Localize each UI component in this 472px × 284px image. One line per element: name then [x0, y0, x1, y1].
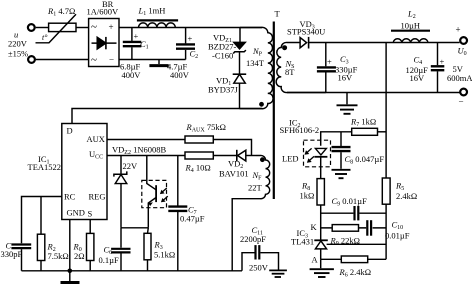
- wire: anode / R6 line: [321, 258, 386, 260]
- svg-text:+: +: [327, 57, 332, 67]
- svg-text:R4 10Ω: R4 10Ω: [185, 163, 211, 175]
- svg-text:2Ω: 2Ω: [74, 251, 85, 261]
- svg-text:±15%: ±15%: [8, 49, 28, 59]
- wire: secondary top rail: [309, 42, 460, 44]
- svg-text:TEA1522: TEA1522: [28, 162, 62, 172]
- ground (primary circuit ground): [61, 271, 80, 283]
- svg-text:A: A: [312, 255, 319, 265]
- svg-text:0.01µF: 0.01µF: [385, 231, 410, 241]
- resistor R1 (NTC thermistor): [36, 14, 77, 43]
- optocoupler IC2 LED dashed box: [304, 140, 331, 167]
- ground (TL431 anode): [310, 259, 334, 277]
- wire: bridge + output to top rail: [119, 27, 262, 29]
- svg-text:+: +: [109, 22, 114, 32]
- svg-text:REG: REG: [89, 192, 106, 202]
- diode VD1: [233, 74, 247, 108]
- svg-text:R1 4.7Ω: R1 4.7Ω: [47, 6, 75, 18]
- transformer secondary winding Ns: [276, 42, 326, 92]
- svg-text:BAV101: BAV101: [219, 169, 249, 179]
- resistor R0: [87, 233, 94, 260]
- svg-text:R7 1kΩ: R7 1kΩ: [350, 117, 376, 129]
- svg-text:K: K: [311, 222, 318, 232]
- resistor R8: [317, 179, 324, 205]
- wire: TL431 REF lead: [327, 243, 387, 245]
- transformer aux winding Nf: [232, 155, 269, 270]
- svg-text:D: D: [67, 126, 73, 136]
- svg-text:BYD37J: BYD37J: [208, 85, 238, 95]
- svg-text:22T: 22T: [248, 183, 263, 193]
- transistor Q (optocoupler output): [147, 156, 156, 228]
- capacitor C4: [431, 43, 445, 93]
- wire: RC pin to left network: [22, 197, 62, 244]
- wire: R7 left wire and LED branch top: [321, 132, 352, 146]
- resistor R6: [341, 256, 367, 263]
- capacitor C8 (0.047µF): [332, 132, 351, 169]
- svg-text:-C160: -C160: [212, 51, 233, 61]
- resistor R9: [332, 225, 358, 232]
- ground (primary DC bus bar ground): [149, 60, 168, 66]
- node: aux winding phase dot: [260, 157, 265, 162]
- svg-text:400V: 400V: [122, 70, 142, 80]
- ground (secondary, under C3): [337, 93, 358, 114]
- node: AC input terminal top: [28, 24, 35, 31]
- svg-text:8T: 8T: [285, 67, 295, 77]
- node: output terminal +: [460, 37, 467, 44]
- svg-text:AUX: AUX: [87, 134, 105, 144]
- resistor RAUX: [185, 136, 213, 143]
- resistor R2: [37, 234, 44, 260]
- svg-text:5.1kΩ: 5.1kΩ: [154, 250, 175, 260]
- svg-text:2.4kΩ: 2.4kΩ: [396, 191, 417, 201]
- ground (under C8): [332, 170, 351, 178]
- wire: C9 branch: [321, 212, 386, 214]
- wire: R2 branch from RC wire: [40, 197, 42, 235]
- svg-text:TL431: TL431: [291, 237, 314, 247]
- svg-text:134T: 134T: [246, 58, 265, 68]
- wire: zener/C6/R3 junction wire: [121, 227, 148, 229]
- svg-text:−: −: [109, 55, 114, 65]
- svg-text:2200pF: 2200pF: [240, 234, 266, 244]
- svg-text:S: S: [88, 209, 93, 219]
- svg-text:1A/600V: 1A/600V: [87, 6, 120, 16]
- svg-text:RAUX 75kΩ: RAUX 75kΩ: [186, 122, 226, 134]
- svg-text:RC: RC: [64, 192, 76, 202]
- capacitor C3: [317, 43, 336, 93]
- svg-text:7.5kΩ: 7.5kΩ: [48, 251, 69, 261]
- ground (secondary earth near C11): [269, 270, 287, 277]
- wire: GND pin down: [69, 220, 71, 271]
- resistor R4: [185, 152, 213, 159]
- wire: RAUX to aux winding junction: [213, 140, 251, 156]
- node: output terminal −: [460, 89, 467, 96]
- svg-text:220V: 220V: [8, 39, 28, 49]
- node: junction dot on ground rail: [68, 269, 73, 274]
- diode VD3 (STPS340U): [300, 37, 309, 49]
- svg-text:LED: LED: [282, 154, 299, 164]
- svg-text:SFH6106-2: SFH6106-2: [280, 125, 320, 135]
- capacitor C11 (2200pF Y-cap): [242, 245, 279, 271]
- svg-text:~: ~: [91, 54, 97, 66]
- transistor IC3: TL431 shunt regulator: [314, 240, 328, 259]
- wire: top input terminal to R1: [36, 27, 49, 29]
- svg-text:~: ~: [91, 21, 97, 33]
- inductor L2: [391, 31, 430, 43]
- svg-text:16V: 16V: [410, 73, 426, 83]
- node: primary phase dot: [259, 102, 264, 107]
- svg-text:330pF: 330pF: [1, 249, 23, 259]
- capacitor C9 (0.01µF): [355, 206, 359, 220]
- wire: R0 to ground rail: [89, 261, 91, 271]
- svg-text:16V: 16V: [338, 73, 354, 83]
- capacitor C6: [111, 228, 130, 271]
- transformer T core: [273, 22, 275, 200]
- wire: bottom input terminal to bridge: [36, 59, 89, 61]
- svg-text:1kΩ: 1kΩ: [300, 191, 315, 201]
- svg-text:+: +: [188, 34, 193, 44]
- wire: drain line from primary bottom to D pin: [72, 109, 262, 124]
- capacitor C10 (0.01µF): [367, 220, 371, 236]
- svg-text:R6 2.4kΩ: R6 2.4kΩ: [339, 267, 372, 279]
- svg-text:−: −: [459, 97, 464, 107]
- resistor R7: [352, 128, 378, 135]
- zener diode VDz1: [233, 42, 246, 74]
- wire: secondary bottom rail: [287, 92, 460, 94]
- svg-text:0.47µF: 0.47µF: [180, 214, 205, 224]
- svg-text:VDZ2 1N6008B: VDZ2 1N6008B: [112, 145, 166, 157]
- wire: R8 to K node: [320, 205, 322, 240]
- light arrows into phototransistor: [160, 188, 168, 202]
- wire: primary ground rail: [22, 270, 243, 272]
- svg-text:22V: 22V: [123, 161, 139, 171]
- inductor L1: [137, 20, 178, 27]
- svg-text:0.1µF: 0.1µF: [99, 255, 120, 265]
- svg-text:GND: GND: [67, 208, 85, 218]
- capacitor C2: [176, 28, 195, 60]
- LED (optocoupler emitter diode): [314, 148, 327, 178]
- bridge rectifier BR: [89, 19, 119, 67]
- zener diode VDz2 (22V): [114, 156, 127, 228]
- wire: bridge - output to bottom rail: [119, 59, 186, 61]
- node: secondary phase dot: [282, 45, 287, 50]
- wire: feedback sense line from pre-L2 node: [385, 43, 387, 260]
- svg-text:+: +: [456, 25, 461, 35]
- wire: R3 top/bottom stubs: [147, 228, 150, 271]
- svg-text:C9 0.01µF: C9 0.01µF: [332, 196, 368, 208]
- wire: Ucc rail: [107, 155, 237, 157]
- node: AC input terminal bottom: [28, 56, 35, 63]
- svg-text:10µH: 10µH: [401, 21, 421, 31]
- svg-text:+: +: [440, 57, 445, 67]
- light arrows out of LED: [305, 148, 315, 162]
- svg-text:STPS340U: STPS340U: [287, 27, 325, 37]
- wire: R7 right wire: [378, 131, 387, 133]
- transformer primary winding Np: [240, 27, 274, 108]
- wire: AUX rail: [107, 139, 185, 141]
- capacitor C7 (0.47µF): [168, 156, 187, 271]
- diode VD2 (BAV101): [237, 150, 256, 162]
- svg-text:400V: 400V: [170, 70, 190, 80]
- svg-text:L1 1mH: L1 1mH: [138, 6, 166, 18]
- capacitor C1: [123, 28, 142, 60]
- svg-text:T: T: [275, 9, 281, 19]
- wire: R2 to ground rail: [40, 261, 42, 271]
- wire: R9/C10 branch: [321, 227, 386, 229]
- resistor R3: [144, 233, 151, 259]
- wire: clamp branch from top rail: [239, 28, 241, 43]
- optocoupler IC2 phototransistor (dashed box): [142, 180, 167, 207]
- resistor R5: [382, 178, 390, 204]
- wire: R1 to bridge: [76, 27, 89, 29]
- svg-text:+: +: [134, 31, 139, 41]
- capacitor C (330pF): [11, 245, 31, 271]
- svg-text:R9 22kΩ: R9 22kΩ: [330, 236, 360, 248]
- op-amp U1 : IC1 TEA1522 controller box: [62, 124, 107, 220]
- svg-text:t°: t°: [42, 33, 48, 42]
- svg-text:600mA: 600mA: [447, 73, 472, 83]
- svg-text:250V: 250V: [249, 263, 269, 273]
- wire: S pin down to R0: [89, 220, 91, 234]
